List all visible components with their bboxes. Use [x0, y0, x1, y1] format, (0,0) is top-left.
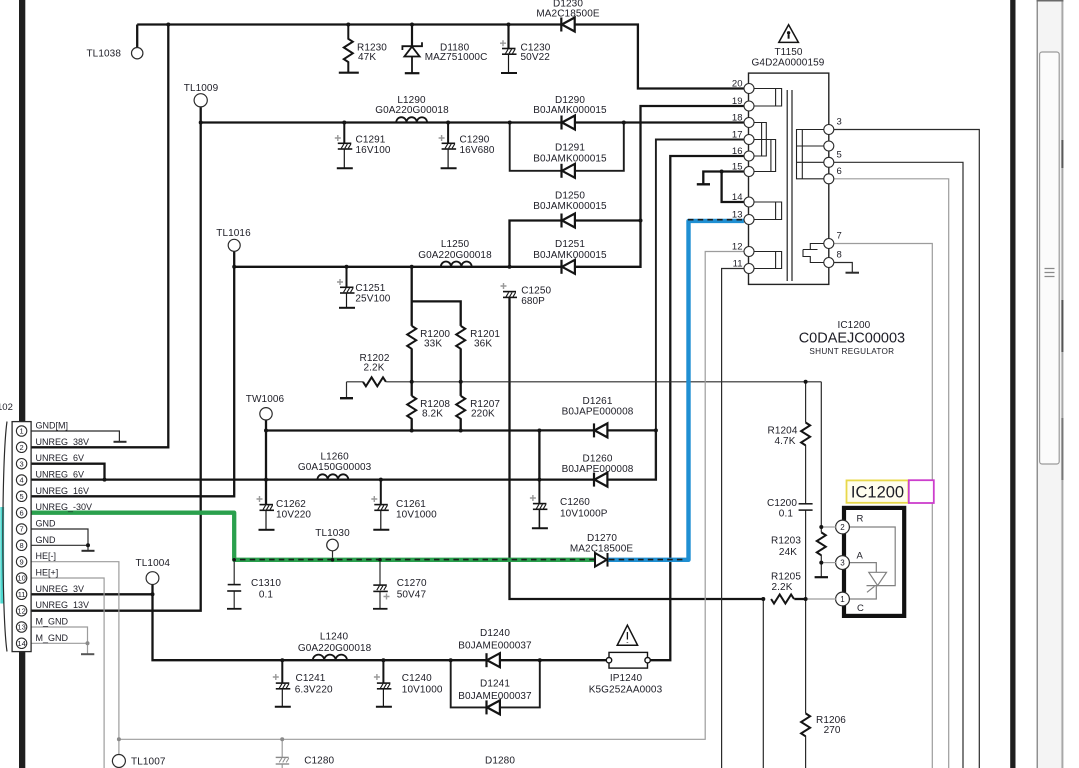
wire D1251 row to transformer pin 19 [510, 106, 744, 267]
ground at connector pin1 [114, 441, 127, 443]
wire transformer pin11 drop [722, 269, 744, 768]
wire R1208 R1207 tops [412, 382, 461, 396]
svg-text:50V47: 50V47 [397, 590, 427, 601]
resistor R1206 [801, 713, 810, 736]
transformer pin 19 [732, 96, 754, 111]
svg-text:T1150: T1150 [774, 47, 802, 58]
blue highlighted wire D1270 to transformer pin13 [608, 221, 744, 560]
svg-text:D1240: D1240 [480, 628, 510, 639]
svg-text:TL1038: TL1038 [86, 49, 121, 60]
svg-text:8.2K: 8.2K [422, 409, 443, 420]
label R1202 [360, 353, 390, 374]
svg-text:B0JAME000037: B0JAME000037 [458, 641, 532, 652]
svg-text:16: 16 [732, 146, 743, 157]
capacitor C1310 [227, 585, 242, 609]
electrolytic capacitor C1291 [335, 123, 353, 169]
scroll area top edge [1037, 0, 1064, 2]
wire bottom gray rail to transformer pin12 [119, 252, 744, 740]
label R1204 [768, 426, 798, 448]
transformer winding loop pins 20-19 [754, 89, 782, 107]
green highlighted UNREG_-30V wire [31, 513, 595, 560]
transformer pin 11 [733, 259, 754, 274]
svg-text:B0JAPE000008: B0JAPE000008 [562, 464, 634, 475]
svg-text:8: 8 [20, 541, 24, 550]
diode D1270 [595, 553, 608, 567]
svg-text:TL1016: TL1016 [216, 228, 251, 239]
zener diode D1180 [402, 25, 422, 74]
label C1230 [521, 43, 551, 64]
dashed wire overlay on blue top segment pin13 [688, 219, 744, 221]
wire pin15 ground arm [703, 172, 721, 185]
svg-text:3: 3 [20, 459, 24, 468]
resistor R1202 horizontal [363, 377, 386, 386]
svg-text:TL1030: TL1030 [315, 528, 350, 539]
connector pin circle 4 [16, 475, 26, 485]
svg-text:B0JAPE000008: B0JAPE000008 [562, 407, 634, 418]
svg-text:B0JAME000037: B0JAME000037 [458, 691, 532, 702]
label C1291 [356, 135, 391, 157]
diode D1291 [562, 164, 575, 178]
svg-text:16V680: 16V680 [460, 145, 495, 156]
label D1251 [533, 239, 607, 261]
transformer pin 3 [824, 117, 842, 135]
svg-text:D1251: D1251 [555, 239, 585, 250]
resistor R1208 [407, 396, 416, 419]
svg-text:10V1000: 10V1000 [396, 510, 437, 521]
svg-text:14: 14 [17, 639, 25, 648]
test point TL1016 [216, 228, 251, 251]
transformer pin 13 [732, 210, 754, 225]
wire R1202 ground arm [346, 382, 348, 398]
svg-text:36K: 36K [474, 339, 492, 350]
ground for R1202 [340, 397, 353, 399]
magenta empty box [909, 480, 934, 503]
label L1250 [418, 239, 492, 261]
svg-text:680P: 680P [521, 296, 545, 307]
svg-text:R1203: R1203 [771, 536, 801, 547]
label R1230 [357, 43, 387, 64]
ground at transformer pin 15 [697, 183, 710, 185]
connector bracket arc [3, 422, 7, 652]
svg-text:UNREG_16V: UNREG_16V [36, 486, 90, 496]
label C1262 [276, 499, 311, 521]
svg-text:C1290: C1290 [460, 135, 490, 146]
wire thin mid rail R1202 row [347, 381, 822, 383]
wire TL1038 stem [136, 25, 138, 48]
svg-text:7: 7 [837, 231, 842, 242]
electrolytic capacitor C1262 [257, 480, 275, 530]
scrollbar separator line [1037, 0, 1038, 768]
svg-text:220K: 220K [471, 409, 495, 420]
svg-text:UNREG_6V: UNREG_6V [36, 470, 85, 480]
label L1260 [298, 452, 372, 474]
wire L1240 rail to TL1004 column to UNREG_3V [31, 594, 606, 660]
right page border bar [1010, 0, 1015, 768]
wire R1200 R1201 bottoms [412, 348, 461, 381]
svg-text:D1270: D1270 [587, 533, 617, 544]
svg-text:G0A150G00003: G0A150G00003 [298, 462, 372, 473]
label R1200 [420, 329, 450, 350]
IC1200 pin 1 circle [836, 592, 850, 606]
wire 16V rail to transformer pin 18 [201, 121, 744, 123]
svg-text:C0DAEJC00003: C0DAEJC00003 [799, 331, 905, 347]
resistor R1205 horizontal [771, 595, 794, 604]
ground at connector pins 7-8 [82, 550, 95, 552]
wire D1250 row [510, 221, 641, 267]
svg-text:2: 2 [840, 523, 845, 532]
label C1310 [251, 578, 281, 601]
svg-text:IC1200: IC1200 [837, 320, 870, 331]
diode D1250 [562, 214, 575, 228]
label D1291 [533, 143, 607, 165]
label IC1200 title [799, 320, 905, 356]
IC1200 shunt regulator thick box [844, 508, 904, 616]
label R1207 [470, 399, 500, 420]
label D1240 [458, 628, 532, 652]
wire TL1009 riser to UNREG_13V [31, 107, 201, 611]
svg-text:0.1: 0.1 [779, 509, 794, 520]
window edge line [1061, 0, 1063, 768]
svg-text:TL1007: TL1007 [131, 757, 166, 768]
svg-text:TL1009: TL1009 [184, 83, 219, 94]
transformer pin 18 [732, 113, 754, 128]
svg-text:R: R [857, 514, 864, 525]
wire R1203 column [820, 382, 822, 533]
electrolytic capacitor C1241 [273, 660, 291, 707]
svg-text:C1280: C1280 [304, 756, 334, 767]
wire HE+ pin10 drop [31, 578, 104, 768]
wire connector pin1 GND arm [31, 431, 119, 442]
transformer winding loop pins 7-8 [803, 244, 824, 263]
svg-text:4.7K: 4.7K [775, 436, 796, 447]
label R1203 [771, 536, 801, 559]
svg-text:K5G252AA0003: K5G252AA0003 [589, 685, 663, 696]
label D1261 [562, 396, 634, 418]
wire connector pin7 pin8 GND [31, 529, 88, 550]
electrolytic capacitor C1261 [371, 480, 389, 530]
connector pin circle 5 [16, 491, 26, 501]
svg-text:D1260: D1260 [583, 454, 613, 465]
svg-text:R1204: R1204 [768, 426, 798, 437]
IC1200 internal thyristor [849, 527, 896, 599]
svg-text:UNREG_13V: UNREG_13V [36, 600, 90, 610]
svg-text:D1241: D1241 [480, 679, 510, 690]
svg-text:IC1200: IC1200 [851, 484, 904, 502]
transformer pin 16 [732, 146, 754, 161]
test point TL1007 [112, 755, 165, 768]
svg-text:C1310: C1310 [251, 578, 281, 589]
fuse IP1240 [606, 652, 650, 668]
connector pin circle 10 [16, 573, 26, 583]
wire transformer pin6 drop [834, 179, 949, 768]
svg-text:16V100: 16V100 [356, 145, 391, 156]
inductor L1260 [317, 474, 348, 479]
svg-text:L1250: L1250 [441, 239, 470, 250]
svg-text:UNREG_-30V: UNREG_-30V [36, 502, 93, 512]
svg-text:7: 7 [20, 525, 24, 534]
svg-text:0.1: 0.1 [259, 590, 274, 601]
diode D1240 [487, 653, 500, 667]
transformer pin 15 [732, 162, 754, 177]
label D1230 [536, 0, 599, 20]
warning triangle at IP1240 [617, 625, 637, 645]
label L1240 [298, 632, 372, 655]
svg-text:MAZ751000C: MAZ751000C [425, 52, 488, 63]
svg-text:C: C [857, 603, 864, 614]
transformer winding loop pins 18-16 [754, 123, 766, 157]
wire C1280 stem [281, 739, 283, 768]
svg-text:TW1006: TW1006 [246, 394, 285, 405]
wire R1203 bottom to ground [820, 555, 822, 577]
svg-text:3: 3 [837, 117, 842, 128]
IC1200 pin 2 circle [836, 520, 850, 534]
svg-text:13: 13 [732, 210, 743, 221]
svg-text:10V220: 10V220 [276, 510, 311, 521]
wire C1310 column [233, 560, 235, 609]
svg-text:13: 13 [17, 623, 25, 632]
label C1290 [460, 135, 495, 157]
svg-text:12: 12 [17, 606, 25, 615]
svg-text:1: 1 [840, 595, 845, 604]
connector body box [12, 422, 31, 652]
window edge dark segment 3 [1061, 418, 1063, 480]
ground at connector pins 13-14 [81, 653, 94, 655]
connector pin circle 13 [16, 622, 26, 632]
wire pin17 vertical to D1261 D1260 [656, 140, 744, 480]
wire TL1004 stem [151, 584, 153, 594]
electrolytic capacitor C1270 [373, 585, 390, 609]
svg-text:6: 6 [20, 508, 24, 517]
svg-text:18: 18 [732, 113, 743, 124]
transformer pin 7 [824, 231, 842, 249]
svg-text:GND: GND [36, 519, 57, 529]
resistor R1204 [801, 423, 810, 446]
svg-text:19: 19 [732, 96, 743, 107]
wire 25V rail [234, 266, 509, 268]
electrolytic capacitor C1240 [374, 660, 392, 707]
svg-text:5: 5 [837, 150, 842, 161]
svg-text:B0JAMK000015: B0JAMK000015 [533, 105, 607, 116]
transformer winding loop pins 3-6 [797, 130, 824, 179]
svg-text:11: 11 [733, 259, 743, 270]
connector pin circle 9 [16, 557, 26, 567]
label C1241 [295, 673, 333, 696]
diode D1290 [562, 116, 575, 130]
svg-text:C1200: C1200 [767, 498, 797, 509]
wire R1203 bottom junction to IC pin3 [821, 562, 836, 564]
transformer winding loop pins 14-13 [754, 202, 782, 220]
transformer pin 17 [732, 130, 754, 145]
label C1240 [402, 673, 443, 696]
svg-text:C1291: C1291 [356, 135, 386, 146]
electrolytic capacitor C1260 [530, 480, 548, 529]
wire transformer pin16 to L1240 rail [650, 156, 744, 660]
svg-text:14: 14 [732, 192, 743, 203]
svg-text:20: 20 [732, 79, 743, 90]
label C1200 [767, 498, 797, 520]
svg-text:B0JAMK000015: B0JAMK000015 [533, 250, 607, 261]
transformer core line 1 [786, 90, 788, 281]
wire transformer pin3 drop [834, 130, 980, 768]
wire C1200 junction to IC pin1 [806, 598, 837, 600]
wire R1208 R1207 bottoms [412, 418, 461, 430]
svg-text:6.3V220: 6.3V220 [295, 685, 333, 696]
connector pin circle 12 [16, 606, 26, 616]
wire TL1007 stem [118, 739, 120, 754]
svg-text:C1261: C1261 [396, 499, 426, 510]
wire R1200 bridge riser [412, 267, 461, 326]
electrolytic capacitor C1290 [439, 123, 457, 169]
ground for R1203 [815, 576, 828, 578]
wire R1204 C1200 column top [805, 382, 807, 423]
window edge dark segment 1 [1061, 140, 1063, 168]
svg-text:2.2K: 2.2K [772, 582, 793, 593]
wire pin15 to pin14 [722, 172, 744, 203]
svg-text:G0A220G00018: G0A220G00018 [375, 105, 449, 116]
label D1270 [570, 533, 633, 555]
transformer winding loop pins 17-15 [754, 140, 776, 172]
svg-text:4: 4 [20, 476, 24, 485]
svg-text:10V1000: 10V1000 [402, 685, 443, 696]
left page border bar [19, 0, 25, 768]
svg-text:MA2C18500E: MA2C18500E [536, 9, 599, 20]
wire R1203 junction to IC pin2 [821, 526, 836, 528]
svg-text:IP1240: IP1240 [610, 673, 643, 684]
connector pin circle 14 [16, 638, 26, 648]
dashed wire overlay on green segment [240, 559, 594, 561]
inductor L1250 [441, 262, 472, 267]
resistor R1200 [407, 326, 416, 349]
svg-text:TL1004: TL1004 [136, 558, 171, 569]
label IP1240 [589, 673, 663, 696]
label C1251 [355, 283, 390, 305]
svg-text:9: 9 [20, 557, 24, 566]
wire D1241 bypass loop [451, 660, 540, 707]
wire D1291 bypass loop [510, 123, 624, 171]
svg-text:270: 270 [824, 725, 841, 736]
transformer pin 8 [824, 250, 842, 268]
svg-text:102: 102 [0, 402, 13, 413]
diode D1251 [562, 260, 575, 274]
wire top +38V rail from TL1038 to transformer pin 20 [137, 25, 744, 89]
svg-text:C1270: C1270 [397, 578, 427, 589]
wire M_GND pin13 pin14 [31, 627, 88, 654]
svg-text:10: 10 [17, 574, 25, 583]
test point TL1038 [86, 48, 142, 60]
transformer pin 14 [732, 192, 754, 207]
svg-text:M_GND: M_GND [36, 633, 69, 643]
scrollbar thumb [1040, 52, 1060, 464]
svg-text:UNREG_3V: UNREG_3V [36, 584, 85, 594]
wire TL1030 stem [332, 551, 334, 560]
svg-text:11: 11 [18, 590, 26, 599]
transformer pin 6 [824, 166, 842, 184]
wire connector pin3 jog [31, 464, 105, 480]
capacitor C1280 [276, 757, 290, 764]
wire R1204 to C1200 [805, 445, 807, 504]
svg-text:GND: GND [36, 535, 57, 545]
transformer winding loop pins 12-11 [754, 252, 782, 269]
ground at transformer pin 8 [846, 272, 860, 274]
transformer pin 12 [732, 242, 754, 257]
transformer pin 5 [824, 150, 842, 168]
svg-text:A: A [857, 551, 864, 562]
warning triangle at T1150 [779, 25, 799, 43]
label D1241 [458, 679, 532, 703]
svg-text:1: 1 [20, 427, 24, 436]
svg-text:C1260: C1260 [560, 497, 590, 508]
svg-text:47K: 47K [358, 52, 376, 63]
svg-text:M_GND: M_GND [36, 617, 69, 627]
svg-text:G0A220G00018: G0A220G00018 [418, 250, 492, 261]
connector pin circle 1 [16, 426, 26, 436]
transformer core line 2 [791, 90, 793, 281]
yellow highlight box IC1200 [847, 480, 909, 502]
test point TL1030 [315, 528, 350, 551]
svg-text:R1205: R1205 [771, 572, 801, 583]
svg-text:D1250: D1250 [555, 191, 585, 202]
svg-text:C1251: C1251 [355, 283, 385, 294]
svg-text:50V22: 50V22 [521, 52, 551, 63]
wire TW1006 column [265, 420, 267, 504]
transformer pin 4 unlabeled [824, 141, 834, 151]
transformer T1150 outer box [749, 73, 829, 284]
svg-text:B0JAMK000015: B0JAMK000015 [533, 201, 607, 212]
svg-text:UNREG_38V: UNREG_38V [36, 437, 90, 447]
connector pin circle 8 [16, 540, 26, 550]
label C1250 [521, 286, 551, 308]
label D1290 [533, 95, 607, 116]
svg-text:L1260: L1260 [320, 452, 349, 463]
label R1208 [420, 399, 450, 420]
wire R1206 column [805, 599, 807, 768]
wire transformer pin5 drop [834, 162, 963, 768]
resistor R1207 [456, 396, 465, 419]
wire transformer pin8 ground arm [834, 263, 853, 273]
wire C1200 to R1205 row [805, 510, 807, 599]
electrolytic capacitor C1230 [500, 25, 517, 74]
connector pin circle 3 [16, 459, 26, 469]
svg-text:C1240: C1240 [402, 673, 432, 684]
wire TL1016 riser to UNREG_16V [31, 251, 234, 496]
IC1200 pin 3 circle [836, 556, 850, 570]
label R1206 [816, 715, 846, 736]
test point TL1004 [136, 558, 171, 584]
label C1260 [560, 497, 608, 520]
svg-text:D1280: D1280 [485, 756, 515, 767]
wire UNREG_38V pin2 riser [31, 25, 168, 448]
connector pin circle 2 [16, 442, 26, 452]
svg-text:L1240: L1240 [320, 632, 349, 643]
capacitor C1200 [799, 504, 813, 510]
diode D1260 [594, 473, 607, 487]
diode D1241 [487, 700, 500, 714]
inductor L1240 [313, 655, 347, 661]
label R1201 [470, 329, 500, 350]
svg-text:15: 15 [732, 162, 743, 173]
scrollbar thumb grip [1045, 269, 1055, 277]
label T1150 [752, 47, 825, 69]
svg-text:2: 2 [20, 443, 24, 452]
wire UNREG_6V rail [31, 430, 656, 479]
connector pin circle 6 [16, 508, 26, 518]
svg-text:17: 17 [732, 130, 743, 141]
label L1290 [375, 95, 449, 116]
svg-text:G0A220G00018: G0A220G00018 [298, 643, 372, 654]
connector pin circle 11 [16, 589, 26, 599]
svg-text:25V100: 25V100 [355, 294, 390, 305]
svg-text:C1241: C1241 [296, 673, 326, 684]
